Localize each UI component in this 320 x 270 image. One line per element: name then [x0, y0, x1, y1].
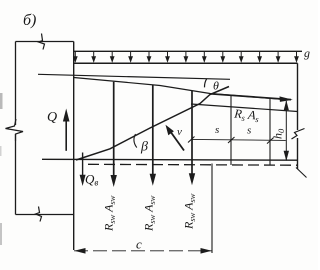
- break mark on right edge: [292, 129, 305, 140]
- svg-text:Qв: Qв: [85, 172, 98, 188]
- beam top edge: [74, 62, 298, 64]
- svg-text:s: s: [247, 125, 251, 137]
- svg-text:s: s: [215, 124, 219, 136]
- svg-text:β: β: [140, 140, 148, 155]
- svg-text:Q: Q: [47, 110, 57, 125]
- stirrup line 4: [230, 95, 232, 165]
- stirrup line 5: [269, 98, 271, 165]
- svg-text:Rsw Asw: Rsw Asw: [182, 193, 198, 230]
- support left vertical: [15, 42, 17, 215]
- svg-text:Rsw Asw: Rsw Asw: [142, 195, 158, 232]
- inclined crack: [76, 87, 229, 161]
- scan edge smudges: [0, 93, 3, 109]
- Rs As arrowhead: [280, 96, 293, 102]
- stirrup line 2 with force arrow: [152, 85, 154, 175]
- inclined line B with Rs As force arrow: [74, 78, 285, 100]
- svg-text:g: g: [304, 46, 310, 60]
- theta angle tick: [204, 79, 206, 88]
- load line g: [74, 50, 302, 52]
- c dimension extension right: [211, 164, 213, 254]
- stirrup line 1 with force arrow Rsw Asw: [113, 82, 115, 177]
- svg-text:Rsw Asw: Rsw Asw: [102, 195, 118, 232]
- break mark on left vertical: [6, 119, 24, 141]
- beam left face / c extension line: [73, 42, 75, 251]
- svg-text:h0: h0: [271, 128, 287, 139]
- beta angle arc: [134, 134, 137, 148]
- svg-text:б): б): [23, 12, 36, 29]
- support bottom line: [16, 214, 75, 216]
- dashed reinforcement line: [88, 163, 298, 166]
- break mark on support bottom line: [36, 207, 42, 222]
- bent bar force arrow V: [170, 131, 184, 151]
- c dimension line: [74, 250, 212, 252]
- inclined line A: [38, 74, 230, 79]
- Qb arrow: [82, 153, 84, 177]
- svg-text:v: v: [177, 126, 182, 138]
- beam bottom edge: [42, 158, 298, 161]
- support top line: [16, 41, 74, 43]
- s dimension line: [191, 139, 286, 140]
- inclined line C: [191, 104, 298, 112]
- svg-text:c: c: [136, 237, 142, 252]
- s dim ticks: [188, 137, 274, 144]
- stirrup line 3 with force arrow: [191, 91, 193, 175]
- svg-text:Rs As: Rs As: [233, 106, 261, 124]
- break mark on support top line: [39, 34, 45, 50]
- right lower diagonal tick: [296, 168, 307, 178]
- beam right cut edge: [297, 63, 299, 169]
- svg-text:θ: θ: [213, 79, 219, 93]
- h0 dimension line: [285, 101, 287, 161]
- Q arrow: [65, 119, 67, 151]
- load arrows: [75, 51, 296, 61]
